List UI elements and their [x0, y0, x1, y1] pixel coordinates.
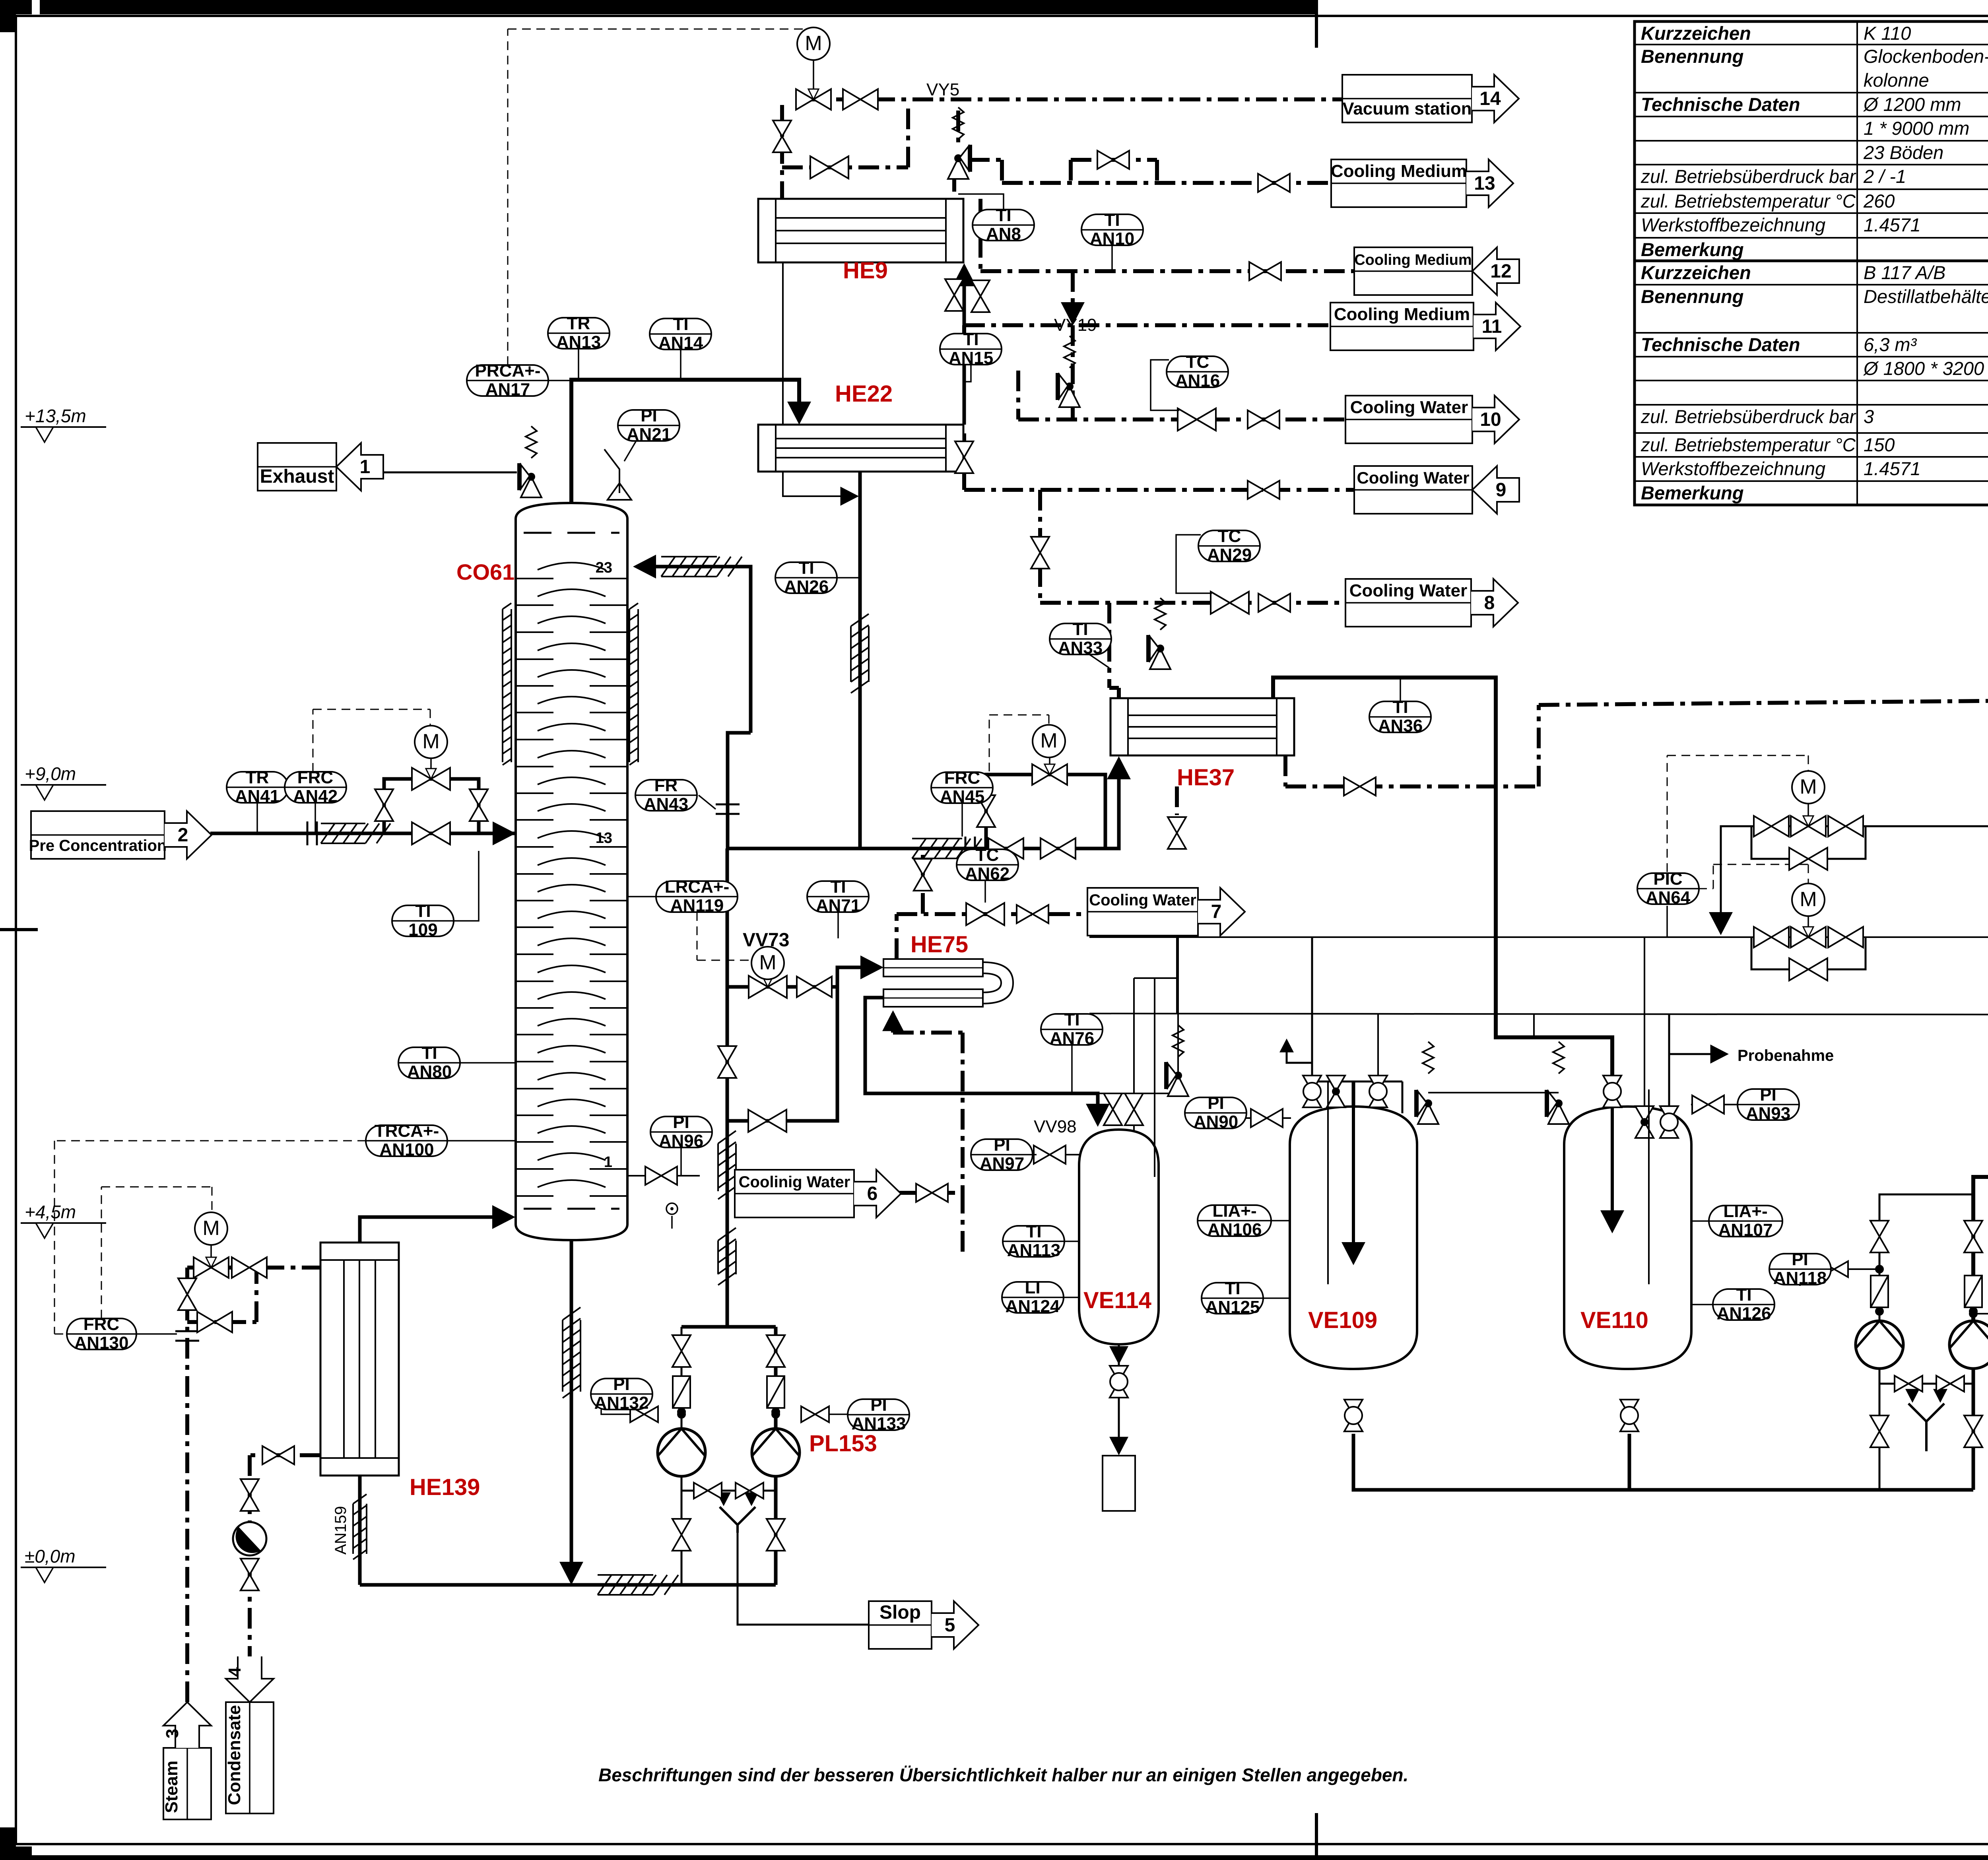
- svg-text:Benennung: Benennung: [1641, 286, 1743, 307]
- column bottom dashed liquid line: [524, 1208, 619, 1210]
- wire distillate line down to header: [728, 733, 751, 848]
- svg-text:M: M: [1800, 775, 1817, 798]
- svg-text:kolonne: kolonne: [1864, 70, 1929, 91]
- valve PI AN90: [1251, 1109, 1283, 1127]
- valve PL153B out: [767, 1519, 785, 1551]
- HE37 cooler: [1110, 698, 1294, 755]
- wire PI AN93: [1691, 1104, 1768, 1105]
- svg-text:PIC: PIC: [1653, 869, 1682, 889]
- HE22 shell connection: [962, 325, 966, 354]
- wire pump suction header PL153: [681, 1325, 776, 1329]
- stem TI AN36: [1400, 678, 1401, 701]
- wire HE9 condensate drain to HE22 outlet pipe: [783, 263, 853, 496]
- relief VE114: [1166, 1062, 1188, 1096]
- orifice FRC AN130: [175, 1331, 199, 1341]
- svg-text:PI: PI: [1208, 1093, 1224, 1113]
- stem TC29 link: [1176, 535, 1212, 593]
- svg-text:TI: TI: [1072, 619, 1088, 639]
- flag 10 Cooling Water: [1345, 396, 1472, 443]
- svg-text:M: M: [422, 730, 439, 753]
- svg-text:FRC: FRC: [944, 768, 980, 788]
- svg-text:1: 1: [604, 1154, 612, 1171]
- valve steam riser: [178, 1278, 196, 1310]
- instrument TI AN71: [807, 877, 869, 915]
- svg-text:Werkstoffbezeichnung: Werkstoffbezeichnung: [1641, 214, 1825, 235]
- signal FRC AN42 to feed valve motor: [313, 709, 314, 772]
- svg-text:TI: TI: [1064, 1010, 1079, 1029]
- svg-text:11: 11: [1482, 316, 1502, 337]
- stem LIA AN106: [1271, 1220, 1290, 1221]
- wire probenahme VE109: [1287, 1042, 1312, 1063]
- HE75 cooling supply: [891, 1013, 895, 1033]
- strainer PL135 A: [1871, 1276, 1888, 1307]
- instrument FR AN43: [635, 776, 697, 814]
- instrument TR AN13: [548, 314, 610, 352]
- valve feed control M: [412, 768, 450, 790]
- valve PL153B suction: [767, 1335, 785, 1367]
- svg-text:Beschriftungen sind der besser: Beschriftungen sind der besseren Übersic…: [598, 1765, 1408, 1785]
- flag6 line: [896, 1191, 963, 1195]
- svg-text:AN16: AN16: [1175, 371, 1220, 390]
- svg-text:2 / -1: 2 / -1: [1863, 166, 1906, 187]
- stem FRC AN42: [315, 803, 316, 833]
- wire HE37 outlet riser: [1273, 678, 1612, 1145]
- valve feed main: [412, 822, 450, 845]
- svg-text:zul. Betriebstemperatur °C: zul. Betriebstemperatur °C: [1640, 190, 1856, 212]
- pump PL153 A: [658, 1429, 705, 1476]
- svg-text:260: 260: [1863, 190, 1895, 212]
- svg-text:LRCA+-: LRCA+-: [665, 877, 730, 897]
- instrument TC AN16: [1167, 352, 1229, 390]
- stem TI AN15: [964, 365, 971, 382]
- wire PL153 crossover: [681, 1490, 776, 1492]
- wire bottom header to pumps: [360, 1583, 776, 1587]
- steam dashdot riser: [185, 1268, 189, 1702]
- wire feed bypass loop: [384, 779, 479, 833]
- wire PL135 crossover: [1879, 1383, 1973, 1385]
- valve VE109 top ball C: [1369, 1076, 1387, 1107]
- wire PL135 discharge: [1879, 1194, 1973, 1321]
- svg-text:109: 109: [408, 920, 437, 940]
- svg-text:Werkstoffbezeichnung: Werkstoffbezeichnung: [1641, 458, 1825, 479]
- svg-text:TC: TC: [976, 845, 999, 865]
- valve VE114 top A: [1104, 1093, 1122, 1125]
- stem TI AN26: [837, 577, 860, 579]
- column insulation right: [629, 603, 638, 765]
- stem TI AN126: [1691, 1304, 1713, 1305]
- dip tube VE110: [1648, 1089, 1650, 1284]
- sample container: [1103, 1456, 1135, 1511]
- wire HE139 top to column: [360, 1217, 508, 1243]
- svg-text:23 Böden: 23 Böden: [1863, 142, 1943, 163]
- motor feed: [415, 726, 447, 758]
- stem PI AN21: [624, 441, 636, 461]
- svg-text:5: 5: [945, 1615, 955, 1636]
- signal LRCA AN119 to VV73: [697, 912, 698, 960]
- svg-text:K 110: K 110: [1864, 23, 1911, 44]
- stem LI AN124: [1063, 1297, 1079, 1298]
- vacuum line to flag 14: [798, 97, 1342, 101]
- TC62 upper stub: [921, 855, 925, 914]
- flag 2 Pre Concentration: [31, 811, 165, 859]
- instrument TC AN62: [957, 845, 1018, 883]
- relief VY5: [948, 145, 970, 179]
- motor HE37: [1033, 725, 1065, 757]
- svg-text:TR: TR: [567, 314, 590, 333]
- svg-text:AN133: AN133: [852, 1414, 906, 1433]
- svg-text:Cooling Water: Cooling Water: [1357, 468, 1469, 487]
- dip tube VE114: [1154, 1133, 1155, 1177]
- svg-text:AN26: AN26: [784, 577, 829, 596]
- svg-text:Cooling Water: Cooling Water: [1089, 891, 1196, 909]
- valve flag6: [916, 1184, 948, 1202]
- valve exh17 B: [1828, 927, 1863, 947]
- instrument TI AN36: [1369, 697, 1431, 736]
- column trays: [516, 563, 627, 1196]
- wire PI AN90: [1233, 1117, 1291, 1119]
- valve PL153A out: [672, 1519, 691, 1551]
- wire reflux return into column tray 23: [640, 567, 751, 733]
- svg-text:PI: PI: [1760, 1085, 1776, 1105]
- svg-text:10: 10: [1480, 409, 1501, 430]
- svg-text:1.4571: 1.4571: [1864, 214, 1921, 235]
- insulation on feed line: [321, 823, 390, 843]
- svg-text:3: 3: [163, 1729, 182, 1738]
- valve steam M control: [194, 1257, 229, 1278]
- pump PL135 A: [1856, 1321, 1903, 1369]
- svg-text:AN8: AN8: [986, 224, 1021, 244]
- wire VV73 branch: [727, 967, 876, 987]
- svg-text:Kurzzeichen: Kurzzeichen: [1641, 262, 1751, 283]
- instrument TI AN10: [1081, 210, 1143, 249]
- svg-text:LIA+-: LIA+-: [1212, 1201, 1256, 1221]
- valve inert A: [1754, 816, 1789, 837]
- svg-text:FR: FR: [654, 776, 678, 795]
- svg-text:13: 13: [596, 830, 612, 847]
- svg-text:AN33: AN33: [1058, 638, 1103, 658]
- motor VV73: [751, 947, 784, 979]
- relief VE109 transfer: [1416, 1090, 1439, 1124]
- wire PL135 suction: [1879, 1369, 1881, 1490]
- equipment data table: [1635, 21, 1988, 261]
- svg-text:FRC: FRC: [297, 768, 333, 787]
- svg-text:AN132: AN132: [594, 1393, 649, 1413]
- valve VV73 bypass: [748, 1110, 786, 1132]
- svg-text:AN17: AN17: [485, 380, 530, 399]
- motor steam: [195, 1212, 227, 1245]
- instrument PI AN132: [591, 1375, 652, 1413]
- loop at flag13 line: [1071, 158, 1157, 162]
- valve VE110 top B dot: [1635, 1106, 1654, 1138]
- wire riser HE22 to HE9: [963, 270, 966, 425]
- svg-text:Cooling Water: Cooling Water: [1350, 398, 1468, 417]
- svg-text:9: 9: [1496, 480, 1507, 501]
- flag 4 Condensate (vertical): [225, 1656, 274, 1813]
- svg-text:TI: TI: [1736, 1285, 1751, 1305]
- wire vessels bottom header: [1353, 1434, 1973, 1490]
- instrument LRCA+- AN119: [656, 877, 738, 915]
- instrument PI AN118: [1769, 1250, 1831, 1288]
- valve VV73 manual: [797, 977, 832, 997]
- instrument PI AN97: [971, 1135, 1033, 1173]
- svg-text:3: 3: [1864, 406, 1874, 427]
- wire HE75 product outlet to VE114: [865, 998, 1098, 1118]
- cooling water line to flag 9: [964, 488, 1354, 492]
- insulation on header to HE37: [912, 839, 982, 858]
- svg-text:AN21: AN21: [627, 425, 672, 444]
- elevation marker +13,5m: [21, 406, 106, 442]
- cooling drop to flag 6: [961, 1033, 965, 1193]
- svg-text:AN118: AN118: [1773, 1268, 1827, 1288]
- pump PL153 B: [752, 1429, 800, 1476]
- wire VE109 top piping: [1352, 1081, 1355, 1113]
- valve flag8 drop: [1031, 537, 1049, 569]
- valve inert bypass: [1789, 848, 1827, 870]
- stem TI AN33: [1089, 654, 1109, 668]
- svg-text:Technische Daten: Technische Daten: [1641, 94, 1800, 115]
- svg-text:4: 4: [225, 1667, 245, 1677]
- svg-text:M: M: [202, 1217, 219, 1240]
- valve CW15 line: [1344, 777, 1376, 796]
- instrument PI AN21: [618, 406, 680, 444]
- valve PL153A suction: [672, 1335, 691, 1367]
- instrument FRC AN130: [67, 1314, 136, 1353]
- wire VE110 top piping: [1668, 1013, 1670, 1113]
- valve top dashdot TC62: [914, 859, 932, 891]
- valve VE110 bottom ball: [1620, 1400, 1639, 1431]
- vacuum line left loop: [780, 105, 784, 199]
- stem TR AN41: [256, 803, 258, 833]
- instrument PI AN96: [650, 1113, 712, 1151]
- signal FRC AN45 to HE37 motor valve: [989, 715, 990, 771]
- instrument TI AN33: [1050, 619, 1111, 658]
- column CO61: [516, 503, 627, 1240]
- valve exh17 M: [1791, 927, 1826, 947]
- svg-text:AN36: AN36: [1378, 716, 1423, 736]
- svg-text:1.4571: 1.4571: [1864, 458, 1921, 479]
- stem TI AN76: [1071, 1045, 1073, 1093]
- flag 8 Cooling Water: [1345, 579, 1471, 627]
- insulation AN159: [353, 1494, 367, 1559]
- elevation marker +4,5m: [21, 1202, 106, 1238]
- insulation on bottom header: [598, 1575, 678, 1595]
- HE37 drain stub: [1175, 786, 1179, 815]
- cooling water line to flag 10: [1018, 417, 1345, 421]
- valve PI AN132: [630, 1406, 658, 1422]
- svg-text:AN126: AN126: [1717, 1304, 1771, 1323]
- svg-text:Slop: Slop: [879, 1602, 921, 1623]
- HE22 condenser: [758, 425, 963, 472]
- svg-text:CO61: CO61: [456, 559, 514, 584]
- valve exh17 bypass: [1789, 958, 1827, 980]
- stem PI AN96: [680, 1147, 682, 1176]
- svg-text:Pre Concentration: Pre Concentration: [29, 837, 167, 854]
- wire PI AN120: [1973, 1313, 1988, 1314]
- valve vacuum control: [796, 89, 831, 110]
- stem TRCA AN100: [447, 1140, 516, 1142]
- valve PI AN21 angle: [604, 449, 631, 500]
- svg-text:Benennung: Benennung: [1641, 46, 1743, 67]
- valve CW7 manual: [1017, 905, 1048, 923]
- svg-text:VY19: VY19: [1054, 315, 1097, 335]
- instrument LI AN124: [1002, 1278, 1064, 1316]
- wire exhaust17 valve loop: [1751, 937, 1866, 969]
- stem TI 109: [454, 851, 479, 921]
- svg-text:Ø 1200 mm: Ø 1200 mm: [1863, 94, 1961, 115]
- valve HE37 drain: [1168, 817, 1186, 849]
- svg-text:M: M: [1800, 888, 1817, 911]
- svg-text:HE22: HE22: [835, 381, 893, 407]
- svg-text:Coolinig Water: Coolinig Water: [739, 1173, 850, 1191]
- HE37 cooling inlet drop: [1107, 603, 1111, 688]
- valve PL135B suction: [1964, 1221, 1982, 1252]
- valve VV73 control: [749, 976, 787, 998]
- flag 14 Vacuum station: [1342, 75, 1472, 122]
- svg-text:TI: TI: [830, 877, 846, 897]
- signal PIC AN64 lower: [1698, 888, 1713, 889]
- HE9 shell inlet dashdot: [978, 199, 982, 271]
- relief VE110 transfer: [1547, 1090, 1569, 1124]
- svg-text:Destillatbehälter: Destillatbehälter: [1864, 286, 1988, 307]
- svg-text:HE75: HE75: [911, 932, 968, 957]
- vessel VE114: [1079, 1130, 1159, 1344]
- orifice FRC AN45: [965, 837, 975, 860]
- signal TRCA AN100 to FRC AN130: [54, 1140, 366, 1142]
- svg-text:12: 12: [1490, 261, 1511, 282]
- svg-text:PRCA+-: PRCA+-: [475, 361, 540, 381]
- valve steam manual: [232, 1257, 267, 1278]
- svg-text:6: 6: [867, 1183, 878, 1204]
- wire inert system line: [1721, 826, 1988, 928]
- svg-text:VV98: VV98: [1034, 1117, 1077, 1136]
- valve VE114 inlet VV98: [1034, 1146, 1066, 1164]
- stem TI AN71: [837, 912, 839, 938]
- wire vert VE110 vent: [1644, 937, 1645, 1105]
- wire exhaust1 line: [384, 472, 517, 474]
- stem TI AN125: [1263, 1297, 1290, 1299]
- valve feed riser L: [375, 789, 393, 821]
- valve VE114 drain ball: [1110, 1366, 1128, 1398]
- flag 11 Cooling Medium: [1330, 303, 1474, 350]
- cooling medium line to flag 12: [980, 269, 1354, 273]
- svg-text:AN130: AN130: [74, 1333, 129, 1353]
- svg-text:LI: LI: [1025, 1278, 1040, 1297]
- valve PL135 crossover L: [1895, 1376, 1922, 1392]
- valve exh17 A: [1754, 927, 1789, 947]
- valve feed riser R: [470, 789, 488, 821]
- valve condensate vert2: [241, 1559, 259, 1590]
- valve HE37 feed B: [1041, 838, 1076, 859]
- svg-text:AN43: AN43: [644, 794, 689, 814]
- wire column bottoms riser to VV73 and pumps: [726, 848, 729, 1327]
- svg-text:PI: PI: [1792, 1250, 1808, 1269]
- svg-text:M: M: [805, 32, 822, 55]
- svg-text:TI: TI: [798, 558, 814, 578]
- valve VE110 top ball C: [1660, 1106, 1678, 1138]
- svg-text:PL153: PL153: [809, 1431, 877, 1456]
- elevation marker +9,0m: [21, 763, 106, 800]
- flag 12 Cooling Medium: [1354, 247, 1472, 295]
- svg-text:Kurzzeichen: Kurzzeichen: [1641, 23, 1751, 44]
- HE9 condenser: [758, 199, 963, 262]
- valve column bottom sample: [666, 1203, 678, 1214]
- cooling medium line to flag 11: [964, 323, 1330, 327]
- svg-text:zul. Betriebsüberdruck bar: zul. Betriebsüberdruck bar: [1640, 406, 1856, 427]
- dot PL153A: [677, 1410, 686, 1419]
- svg-text:TI: TI: [421, 1043, 437, 1063]
- svg-text:PI: PI: [673, 1113, 689, 1132]
- instrument FRC AN45: [931, 768, 993, 806]
- svg-text:B 117 A/B: B 117 A/B: [1864, 262, 1945, 283]
- svg-text:AN80: AN80: [407, 1062, 452, 1081]
- stem TI AN10: [1111, 245, 1113, 271]
- wire column bottom outlet: [570, 1241, 573, 1578]
- stem PRCA AN17: [549, 380, 571, 381]
- flag 5 Slop: [869, 1601, 932, 1649]
- svg-text:TC: TC: [1218, 526, 1241, 546]
- wire HE22 outlet down to main distillate header: [858, 471, 862, 848]
- instrument PIC AN64: [1637, 869, 1699, 907]
- insulation on HE22 outlet: [851, 614, 869, 693]
- svg-text:LIA+-: LIA+-: [1723, 1202, 1767, 1221]
- valve flag9: [1248, 481, 1279, 499]
- wire VE110 inlet dip arrow: [1611, 1050, 1614, 1225]
- stem TC AN62: [984, 880, 986, 903]
- instrument FRC AN42: [285, 768, 346, 806]
- wire HE37 bypass loop: [986, 775, 1105, 848]
- svg-text:VE110: VE110: [1580, 1307, 1648, 1333]
- valve CW7 TC control: [966, 903, 1004, 925]
- stem LIA AN107: [1691, 1220, 1708, 1222]
- signal TC AN62: [985, 880, 986, 903]
- elevation marker &#177;0,0m: [21, 1546, 106, 1582]
- arrow into column bottom left: [445, 1215, 509, 1219]
- svg-text:M: M: [1040, 729, 1057, 752]
- HE75 cooling outlet to flag 7: [895, 914, 899, 959]
- wire Y strainer PL135: [1908, 1404, 1944, 1451]
- valve PL135A suction: [1870, 1221, 1889, 1252]
- wire TI76 junction line: [1098, 937, 1178, 1093]
- cooling water line to flag 8: [1040, 601, 1345, 605]
- svg-text:7: 7: [1211, 901, 1222, 922]
- valve VE109 top ball A: [1303, 1076, 1321, 1107]
- instrument PRCA+- AN17: [467, 361, 549, 399]
- valve PL153 cross R: [736, 1483, 763, 1499]
- svg-text:TC: TC: [1186, 352, 1209, 372]
- instrument TI AN126: [1713, 1285, 1775, 1323]
- svg-text:AN106: AN106: [1208, 1220, 1262, 1239]
- svg-text:PI: PI: [613, 1375, 630, 1394]
- svg-text:Probenahme: Probenahme: [1738, 1047, 1834, 1064]
- signal FRC AN130 to steam valve motor: [101, 1187, 102, 1318]
- valve inert M: [1791, 816, 1826, 837]
- valve VE114 top B: [1125, 1093, 1143, 1125]
- stem LRCA AN119: [627, 896, 656, 897]
- cooling medium line to flag 13: [969, 158, 1002, 162]
- svg-text:PI: PI: [641, 406, 657, 425]
- svg-text:2: 2: [178, 825, 188, 846]
- insulation on reflux line: [661, 557, 742, 577]
- valve HE37 bypass left vert: [977, 795, 995, 827]
- wire column top vapour line to HE22: [571, 380, 799, 509]
- svg-text:+13,5m: +13,5m: [25, 406, 86, 426]
- valve PL135B out: [1964, 1415, 1982, 1447]
- instrument TI AN125: [1202, 1279, 1264, 1317]
- svg-text:TI: TI: [1104, 210, 1120, 230]
- stem TI AN80: [460, 1062, 516, 1064]
- valve flag10 TC: [1178, 408, 1216, 431]
- valve PI AN93: [1692, 1095, 1724, 1114]
